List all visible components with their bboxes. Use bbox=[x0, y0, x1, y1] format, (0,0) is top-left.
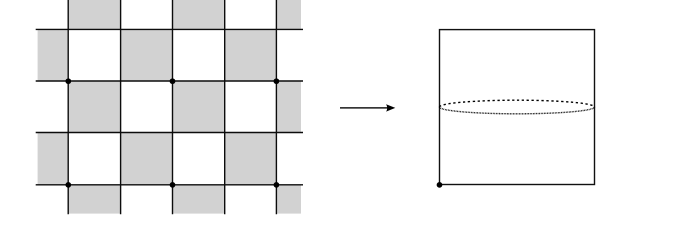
grid vertical line x=172 bbox=[172, 0, 174, 214]
lattice dot (276,185) bbox=[274, 182, 280, 188]
quotient square bbox=[440, 30, 595, 185]
lattice dot (172,81) bbox=[170, 78, 176, 84]
grid horizontal line y=81 bbox=[36, 80, 303, 82]
gray cell row0 col5 bbox=[276, 0, 302, 29]
grid horizontal line y=185 bbox=[36, 184, 303, 186]
gray cell row1 col0 bbox=[37, 29, 68, 81]
grid vertical line x=225 bbox=[224, 0, 226, 214]
lattice dot (172,185) bbox=[170, 182, 176, 188]
gray cell row0 col3 bbox=[173, 0, 225, 29]
gray cell row1 col4 bbox=[225, 29, 277, 81]
gray cell row1 col2 bbox=[121, 29, 173, 81]
grid vertical line x=68 bbox=[67, 0, 69, 214]
gray cell row2 col1 bbox=[68, 81, 120, 133]
arrow shaft bbox=[340, 107, 389, 109]
gray cell row3 col4 bbox=[225, 133, 277, 185]
gray cell row4 col3 bbox=[173, 185, 225, 214]
gray cell row3 col0 bbox=[37, 133, 68, 185]
gray cell row2 col3 bbox=[173, 81, 225, 133]
arrow head bbox=[386, 104, 395, 111]
grid vertical line x=121 bbox=[120, 0, 122, 214]
lattice dot (68,81) bbox=[65, 78, 71, 84]
gray cell row0 col1 bbox=[68, 0, 120, 29]
gray cell row2 col5 bbox=[276, 81, 302, 133]
gray cell row4 col1 bbox=[68, 185, 120, 214]
grid horizontal line y=29 bbox=[36, 28, 303, 30]
gray cell row3 col2 bbox=[121, 133, 173, 185]
cylinder circle back arc (dashed top half) bbox=[440, 100, 595, 107]
grid horizontal line y=132 bbox=[36, 132, 303, 134]
gray cell row4 col5 bbox=[276, 185, 302, 214]
lattice dot (276,81) bbox=[274, 78, 280, 84]
lattice dot (68,185) bbox=[65, 182, 71, 188]
base point dot bbox=[437, 182, 443, 188]
grid vertical line x=276 bbox=[275, 0, 277, 214]
cylinder circle front arc (dotted bottom half) bbox=[440, 107, 595, 114]
